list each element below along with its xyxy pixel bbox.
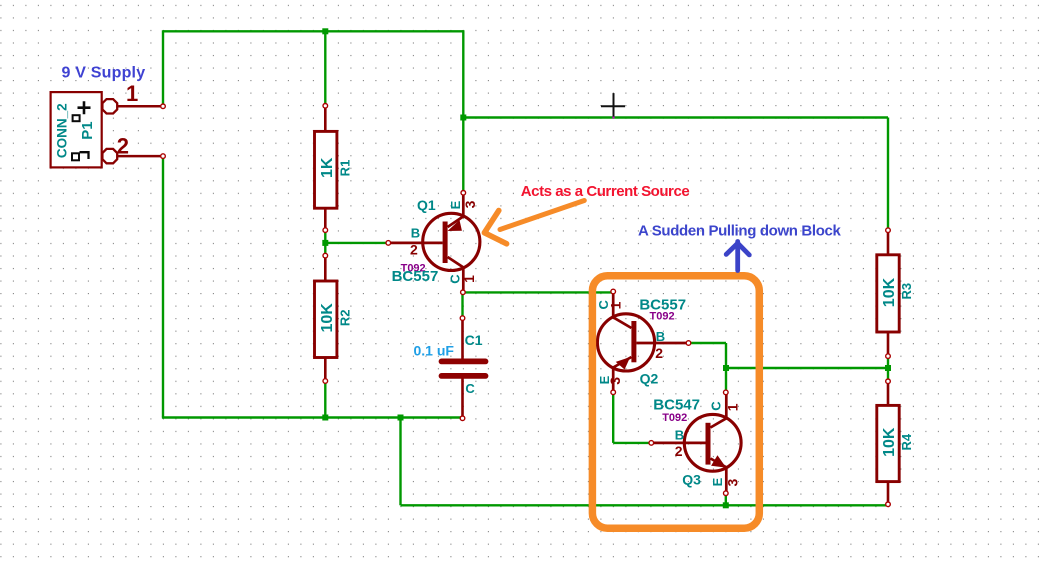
Q2 value BC557 (639, 297, 686, 314)
wire R2 bottom (324, 381, 326, 418)
wire right vertical to Q1 emitter (462, 30, 464, 192)
C1 reference (465, 332, 483, 348)
Q1 pin 1 name C (448, 274, 463, 284)
Q3 pin 1 name C (709, 401, 724, 411)
svg-text:1: 1 (461, 275, 477, 283)
junction Q2 base / mid link (723, 365, 729, 371)
resistor R3 (877, 228, 899, 359)
svg-text:0.1 uF: 0.1 uF (414, 342, 455, 358)
Q3 pin 3 number (725, 478, 741, 486)
resistor R1 (315, 104, 337, 233)
wire to Q3 base (613, 442, 651, 444)
svg-text:B: B (411, 225, 420, 240)
wire bottom-left horizontal (162, 416, 463, 418)
wire branch down from bottom-left bus (399, 418, 401, 506)
Q3 pin 3 name E (710, 477, 725, 486)
P1 value CONN_2 (54, 103, 69, 158)
svg-text:BC557: BC557 (392, 268, 439, 285)
wire R3 bottom to R4 top (887, 356, 889, 381)
svg-text:1: 1 (126, 81, 138, 106)
wire Q1 collector to Q2 collector (463, 291, 614, 293)
junction top bus / R1 (322, 28, 328, 34)
text annotation A Sudden Pulling down Block (638, 222, 841, 239)
R3 reference (899, 283, 914, 300)
Q2 pin 2 name B (656, 329, 665, 344)
svg-text:2: 2 (655, 345, 663, 361)
svg-text:1K: 1K (319, 157, 336, 178)
wire bottom bus horizontal (401, 504, 889, 506)
Q1 pin 3 name E (448, 200, 463, 209)
svg-text:Q2: Q2 (640, 371, 659, 387)
svg-text:T092: T092 (662, 412, 687, 424)
svg-text:C1: C1 (465, 332, 483, 348)
R2 reference (337, 309, 352, 326)
svg-text:CONN_2: CONN_2 (54, 103, 69, 158)
blue arrow annotation (726, 242, 749, 271)
junction mid link / R3-R4 (885, 365, 891, 371)
Q1 pin 1 number (461, 275, 477, 283)
svg-text:B: B (656, 329, 665, 344)
wire to Q1 base (325, 242, 388, 244)
orange arrow annotation (484, 201, 584, 244)
svg-text:2: 2 (675, 443, 683, 459)
Q1 reference (417, 197, 436, 213)
junction R2 bottom / bottom-left bus (322, 415, 328, 421)
svg-text:1: 1 (608, 301, 624, 309)
Q2 pin 1 number (608, 301, 624, 309)
text annotation Acts as a Current Source (521, 183, 690, 200)
R2 value 10K (319, 303, 336, 333)
Q2 pin 3 name E (597, 375, 612, 384)
P1 pin number 2 (117, 133, 129, 158)
R3 value 10K (881, 277, 898, 307)
wire top bus horizontal (163, 30, 463, 32)
Q2 footprint T092 (650, 311, 675, 323)
svg-text:2: 2 (117, 133, 129, 158)
svg-text:T092: T092 (650, 311, 675, 323)
wire R1 bottom to R2 top (324, 230, 326, 256)
wire Q2 base down to Q3 collector (725, 343, 727, 392)
svg-text:R1: R1 (337, 160, 352, 177)
Q3 pin 2 number (675, 443, 683, 459)
svg-text:E: E (710, 477, 725, 486)
Q3 value BC547 (653, 397, 700, 414)
Q2 pin 3 number (607, 377, 623, 385)
Q3 pin 1 number (725, 403, 741, 411)
wire mid link to R3-R4 junction (726, 367, 888, 369)
Q1 footprint T092 (401, 263, 426, 275)
svg-text:Q3: Q3 (682, 471, 701, 487)
Q3 pin 2 name B (675, 428, 684, 443)
wire drop to R3 top (887, 118, 889, 231)
pin end circle P1.1 (161, 104, 166, 109)
svg-text:10K: 10K (319, 303, 336, 333)
Q2 pin 1 name C (596, 299, 611, 309)
svg-text:9 V Supply: 9 V Supply (62, 65, 146, 82)
svg-text:B: B (675, 428, 684, 443)
svg-text:C: C (709, 401, 724, 411)
wire second bus horizontal (463, 116, 888, 118)
svg-text:2: 2 (410, 242, 418, 258)
Q3 reference (682, 471, 701, 487)
Q3 footprint T092 (662, 412, 687, 424)
R4 value 10K (881, 427, 898, 457)
svg-text:3: 3 (462, 200, 478, 208)
wire Q3 emitter to bottom bus (725, 493, 727, 505)
capacitor C1 (442, 316, 486, 421)
Q1 pin 2 name B (411, 225, 420, 240)
R1 reference (337, 160, 352, 177)
cursor crosshair (601, 93, 625, 118)
orange block outline (592, 276, 759, 528)
P1 reference (79, 121, 96, 139)
junction bottom-left bus branch (398, 415, 404, 421)
svg-text:R4: R4 (899, 433, 914, 450)
wire Q1 collector to C1 top (461, 292, 463, 318)
svg-text:R3: R3 (899, 283, 914, 300)
svg-text:1: 1 (725, 403, 741, 411)
wire left vertical to pin 1 (162, 30, 164, 106)
R1 value 1K (319, 157, 336, 178)
Q1 value BC557 (392, 268, 439, 285)
C1 value 0.1 uF (414, 342, 455, 358)
svg-text:10K: 10K (881, 277, 898, 307)
svg-text:A Sudden Pulling down Block: A Sudden Pulling down Block (638, 222, 841, 239)
transistor Q1 BC557 PNP (386, 191, 480, 295)
pin end circle P1.2 (161, 154, 166, 159)
svg-text:P1: P1 (79, 121, 96, 139)
transistor Q2 BC557 PNP mirrored (597, 289, 690, 394)
svg-text:C: C (465, 381, 475, 396)
text annotation 9 V Supply (62, 65, 146, 82)
transistor Q3 BC547 NPN (649, 390, 741, 495)
wire drop to R1 top (324, 31, 326, 105)
connector P1 CONN_2 (51, 92, 163, 167)
Q1 pin 2 number (410, 242, 418, 258)
wire Q2 emitter down (612, 392, 614, 443)
Q2 reference (640, 371, 659, 387)
P1 pin number 1 (126, 81, 138, 106)
Q1 pin 3 number (462, 200, 478, 208)
svg-text:10K: 10K (881, 427, 898, 457)
svg-text:R2: R2 (337, 309, 352, 326)
R4 reference (899, 433, 914, 450)
resistor R4 (877, 379, 899, 507)
svg-text:Q1: Q1 (417, 197, 436, 213)
svg-text:3: 3 (725, 478, 741, 486)
wire pin 2 down left side (162, 156, 164, 418)
wire Q2 base right (689, 342, 727, 344)
C1 pin name C (465, 381, 475, 396)
svg-text:Acts as a Current Source: Acts as a Current Source (521, 183, 690, 200)
Q2 pin 2 number (655, 345, 663, 361)
resistor R2 (315, 253, 337, 383)
junction Q3 emitter / bottom bus (723, 502, 729, 508)
junction R1-R2 / Q1 base (322, 240, 328, 246)
junction right vertical / second bus (460, 115, 466, 121)
svg-text:3: 3 (607, 377, 623, 385)
